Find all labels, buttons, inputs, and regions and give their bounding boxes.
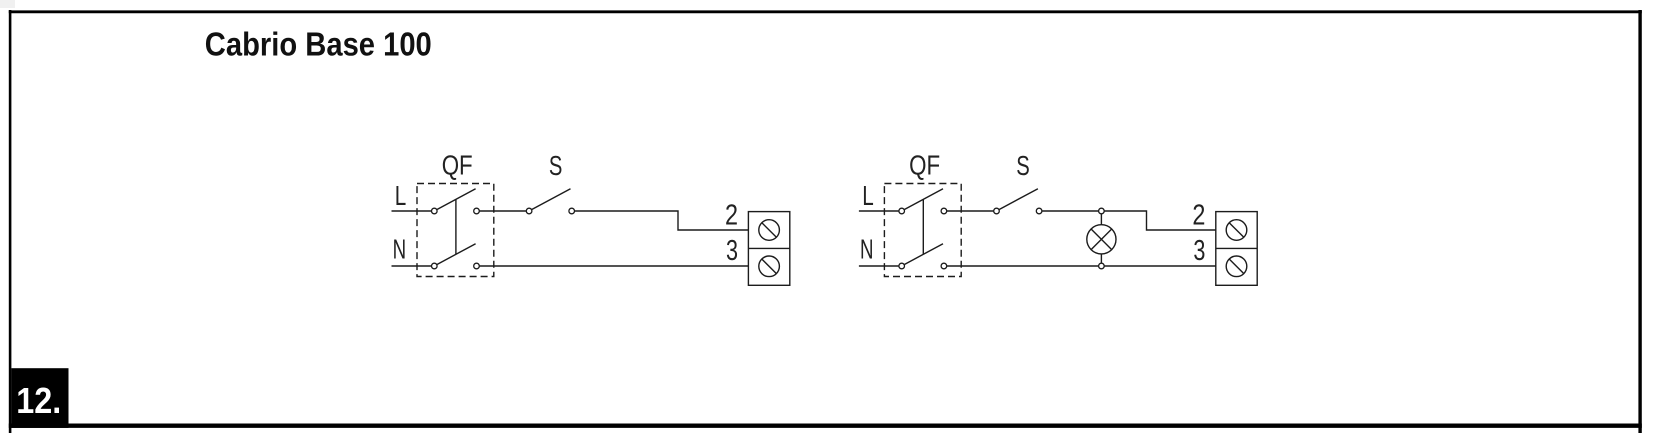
breaker QF mechanical linkage (right) bbox=[922, 199, 924, 254]
circuit breaker QF dashed outline (left) bbox=[417, 184, 494, 277]
breaker QF pole 2 contact right (right) bbox=[941, 263, 947, 269]
switch S blade (right) bbox=[999, 189, 1038, 210]
svg-text:QF: QF bbox=[909, 149, 940, 180]
lamp EL cross stroke 1 (right) bbox=[1091, 229, 1112, 250]
wire L input (right) bbox=[859, 210, 899, 212]
terminal 2 screw slash (left) bbox=[762, 223, 777, 238]
breaker QF pole 2 contact right (left) bbox=[474, 263, 480, 269]
terminal 3 screw (right) bbox=[1226, 256, 1247, 277]
terminal 2 screw slash (right) bbox=[1229, 223, 1244, 238]
breaker QF mechanical linkage (left) bbox=[455, 199, 457, 254]
wire S to terminal 2 (left) bbox=[575, 211, 749, 230]
terminal block outline (left) bbox=[748, 212, 789, 286]
wire N input (left) bbox=[392, 265, 432, 267]
svg-text:L: L bbox=[395, 180, 407, 211]
terminal 2 screw (left) bbox=[759, 220, 780, 241]
svg-text:QF: QF bbox=[442, 149, 473, 180]
breaker QF pole 1 contact left (right) bbox=[899, 208, 905, 214]
switch S right contact (left) bbox=[569, 208, 575, 214]
switch S pivot contact (right) bbox=[994, 208, 1000, 214]
svg-text:2: 2 bbox=[1192, 200, 1205, 232]
wire node to lamp top (right) bbox=[1100, 214, 1102, 224]
terminal block divider (left) bbox=[748, 247, 789, 249]
wire lamp bottom to node (right) bbox=[1100, 255, 1102, 264]
svg-text:3: 3 bbox=[1193, 235, 1205, 267]
wire N input (right) bbox=[859, 265, 899, 267]
breaker QF pole 2 arm (right) bbox=[904, 244, 943, 265]
lamp EL (right) bbox=[1087, 225, 1116, 254]
breaker QF pole 1 contact right (right) bbox=[941, 208, 947, 214]
node junction top (right) bbox=[1099, 208, 1105, 214]
switch S blade (left) bbox=[532, 189, 571, 210]
svg-text:3: 3 bbox=[726, 235, 738, 267]
breaker QF pole 1 contact right (left) bbox=[474, 208, 480, 214]
lamp EL cross stroke 2 (right) bbox=[1091, 229, 1112, 250]
wire L input (left) bbox=[392, 210, 432, 212]
svg-text:N: N bbox=[393, 234, 407, 265]
svg-text:12.: 12. bbox=[16, 380, 61, 421]
svg-text:2: 2 bbox=[725, 200, 738, 232]
terminal 2 screw (right) bbox=[1226, 220, 1247, 241]
svg-text:S: S bbox=[549, 150, 563, 181]
wire node to terminal 3 (right) bbox=[1104, 265, 1216, 267]
terminal 3 screw (left) bbox=[759, 256, 780, 277]
svg-text:S: S bbox=[1016, 150, 1030, 181]
breaker QF pole 2 contact left (left) bbox=[432, 263, 438, 269]
breaker QF pole 2 arm (left) bbox=[437, 244, 476, 265]
terminal block divider (right) bbox=[1216, 247, 1257, 249]
wire node to terminal 2 (right) bbox=[1104, 211, 1216, 230]
terminal 3 screw slash (right) bbox=[1229, 259, 1244, 274]
breaker QF pole 1 contact left (left) bbox=[432, 208, 438, 214]
wire S to node (right) bbox=[1042, 210, 1099, 212]
wire QF to S (left) bbox=[479, 210, 526, 212]
node junction bottom (right) bbox=[1099, 263, 1105, 269]
breaker QF pole 1 arm (right) bbox=[904, 189, 943, 210]
page number box "12." bbox=[11, 368, 68, 428]
terminal 3 screw slash (left) bbox=[762, 259, 777, 274]
switch S pivot contact (left) bbox=[526, 208, 532, 214]
terminal block outline (right) bbox=[1216, 212, 1257, 286]
wire N to terminal 3 (left) bbox=[479, 265, 748, 267]
wire QF to node (right) bbox=[947, 265, 1099, 267]
svg-text:L: L bbox=[862, 180, 874, 211]
svg-text:Cabrio Base 100: Cabrio Base 100 bbox=[205, 27, 432, 64]
circuit breaker QF dashed outline (right) bbox=[884, 184, 961, 277]
breaker QF pole 1 arm (left) bbox=[437, 189, 476, 210]
switch S right contact (right) bbox=[1036, 208, 1042, 214]
svg-text:N: N bbox=[860, 234, 874, 265]
wire QF to S (right) bbox=[947, 210, 994, 212]
breaker QF pole 2 contact left (right) bbox=[899, 263, 905, 269]
